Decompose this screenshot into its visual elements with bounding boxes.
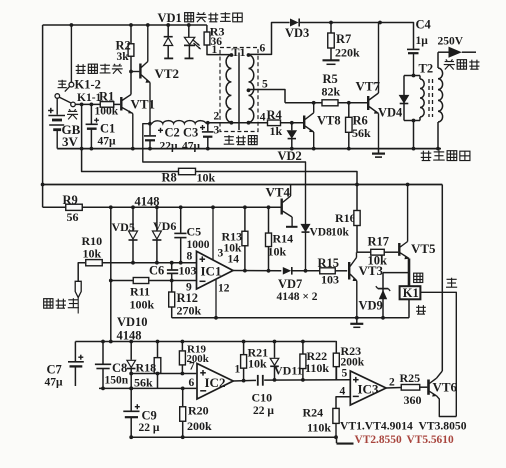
label IC2	[205, 375, 226, 390]
capacitor C4	[407, 49, 420, 75]
svg-text:270k: 270k	[177, 304, 202, 318]
label VT2	[155, 66, 180, 81]
capacitor C8	[95, 342, 111, 389]
label T2	[419, 62, 434, 76]
wire link winding C2 to C3	[152, 121, 206, 124]
diode VD8	[302, 225, 310, 273]
wire VT3 collector to VT5 base	[357, 251, 398, 253]
diode VD11	[270, 342, 279, 380]
svg-text:56: 56	[67, 210, 79, 224]
diode VD7	[283, 267, 292, 275]
label C7 plus	[78, 355, 83, 360]
svg-text:6: 6	[189, 377, 195, 389]
label R7	[336, 32, 351, 46]
svg-text:VT7: VT7	[356, 79, 381, 94]
label VD5	[112, 220, 135, 234]
svg-text:R7: R7	[336, 32, 351, 46]
svg-text:C9: C9	[142, 409, 157, 423]
label 360	[404, 393, 422, 407]
label pin 6	[260, 43, 266, 55]
diode VD10 and capacitor C9 branch	[123, 342, 139, 440]
svg-text:VT2.8550: VT2.8550	[355, 434, 402, 446]
wire T1 pin6 to VD3 line	[249, 23, 290, 55]
wire C2 node to VD8 branch	[143, 124, 306, 271]
svg-text:56k: 56k	[134, 376, 153, 390]
resistor R21	[241, 342, 247, 381]
svg-text:82k: 82k	[322, 85, 341, 99]
label 56k	[352, 126, 371, 140]
svg-text:R4: R4	[267, 108, 283, 122]
svg-text:VD6: VD6	[153, 219, 176, 233]
svg-text:100k: 100k	[95, 106, 119, 118]
label 110k R22	[305, 361, 329, 375]
label R20	[188, 404, 209, 418]
resistor R5	[322, 100, 338, 106]
svg-text:C3: C3	[183, 126, 198, 140]
label R4	[267, 108, 283, 122]
resistor R1	[100, 102, 114, 108]
label pin 12	[216, 280, 230, 318]
svg-text:22 μ: 22 μ	[139, 422, 160, 434]
label 高压线圈 (HV coil)	[421, 150, 470, 160]
label C8	[112, 361, 127, 375]
label 82k	[322, 85, 341, 99]
wire pin5 to R5 line	[249, 90, 286, 103]
label R1	[99, 90, 114, 104]
svg-text:4: 4	[260, 112, 266, 124]
svg-text:250V: 250V	[438, 36, 464, 48]
svg-text:R25: R25	[400, 371, 421, 385]
svg-text:C5: C5	[187, 225, 202, 239]
svg-text:VT8: VT8	[317, 114, 341, 128]
wire battery minus rail	[57, 147, 441, 151]
label R5	[323, 72, 338, 86]
label K1-2	[75, 78, 101, 92]
wire relay feed down right edge	[441, 185, 443, 372]
label VT7	[356, 79, 381, 94]
label R13	[222, 230, 243, 244]
wire R5 node line	[285, 101, 367, 105]
label C2 C3 values	[160, 125, 206, 153]
resistor R22	[300, 342, 306, 380]
svg-text:VD3: VD3	[285, 26, 309, 40]
label 10k R14	[268, 245, 287, 259]
svg-text:R8: R8	[162, 171, 177, 185]
wire IC2 inverting input	[99, 387, 196, 391]
label 1k	[270, 124, 283, 138]
transistor VT5	[399, 185, 409, 287]
transformer T1 secondary winding	[247, 53, 254, 125]
svg-text:IC2: IC2	[205, 375, 226, 390]
resistor R4	[268, 120, 281, 126]
label 150n	[105, 375, 129, 387]
resistor R16	[354, 185, 360, 253]
svg-text:R17: R17	[368, 235, 390, 249]
label 水控开关 (water switch)	[76, 64, 123, 74]
label pin 3	[213, 207, 224, 260]
svg-text:R20: R20	[188, 404, 209, 418]
resistor R3	[204, 25, 231, 55]
diode VD3	[290, 19, 299, 27]
svg-text:IC1: IC1	[201, 264, 222, 279]
svg-text:VD7: VD7	[278, 277, 302, 291]
svg-text:VT5.5610: VT5.5610	[407, 434, 454, 446]
svg-text:VD2: VD2	[278, 149, 302, 163]
transformer T1 primary winding	[226, 53, 233, 125]
svg-text:150n: 150n	[105, 375, 129, 387]
label VT3	[359, 263, 384, 278]
wire oscillator top rail	[75, 340, 335, 344]
wire IC3 inverting to R24	[336, 397, 350, 408]
zener VD9	[376, 273, 409, 318]
label pin 2	[214, 111, 220, 123]
label 开 (on)	[58, 80, 67, 88]
label 10k R17	[368, 254, 388, 268]
label VT8	[317, 114, 341, 128]
wire long middle rail	[41, 183, 443, 187]
label pin 4	[340, 386, 346, 398]
svg-text:R1: R1	[99, 90, 114, 104]
ground main rail	[372, 149, 385, 158]
label R17	[368, 235, 390, 249]
capacitor C3	[202, 123, 214, 149]
transformer T2 secondary 高压线圈	[438, 52, 443, 148]
wire IC3 output	[386, 387, 401, 390]
label VT5	[411, 241, 436, 256]
label VD8 10k	[310, 211, 356, 239]
capacitor C10	[258, 375, 350, 386]
svg-text:VT3.8050: VT3.8050	[419, 420, 467, 433]
svg-text:C4: C4	[416, 18, 432, 32]
wire IC1 output	[233, 269, 281, 273]
label 22u C10	[253, 405, 274, 417]
label IC1	[201, 264, 222, 279]
label IC3	[358, 382, 379, 397]
relay K1	[400, 286, 421, 318]
svg-text:K1: K1	[403, 286, 419, 300]
label R2	[116, 39, 131, 53]
resistor R23	[333, 342, 339, 380]
label 1000	[187, 239, 210, 251]
diode VD6	[152, 207, 161, 264]
ground middle rail	[350, 318, 363, 328]
resistor R13	[242, 207, 248, 272]
label R14	[273, 232, 294, 246]
label VD10 4148	[117, 315, 148, 343]
svg-text:3: 3	[214, 125, 220, 137]
svg-text:4148: 4148	[135, 195, 160, 209]
svg-text:C10: C10	[252, 391, 273, 405]
svg-text:3V: 3V	[62, 134, 79, 149]
svg-text:3k: 3k	[117, 51, 130, 63]
label VD6	[153, 219, 176, 233]
op-amp IC2	[197, 364, 233, 400]
label 100k	[95, 106, 119, 118]
svg-text:10k: 10k	[197, 171, 216, 185]
svg-text:1k: 1k	[270, 124, 283, 138]
label C5	[187, 225, 202, 239]
label C7	[47, 363, 62, 377]
svg-text:6: 6	[260, 43, 266, 55]
label C4	[416, 18, 432, 32]
transistor VT3	[349, 252, 357, 318]
svg-text:VD8: VD8	[310, 227, 333, 239]
svg-text:360: 360	[404, 393, 422, 407]
wire IC2 output	[233, 379, 256, 383]
label pin 5	[342, 368, 348, 380]
label VT6	[433, 380, 458, 395]
transformer T1 core	[238, 53, 240, 131]
label 4148 diodes	[135, 195, 160, 209]
resistor R12	[169, 281, 175, 318]
label 22u C9	[139, 422, 160, 434]
svg-text:5: 5	[262, 79, 268, 91]
svg-text:R24: R24	[303, 406, 324, 420]
label GB	[62, 122, 81, 137]
svg-text:C2: C2	[165, 126, 180, 140]
transistor VT7	[367, 23, 379, 149]
resistor R10	[86, 260, 103, 266]
diode VD2a indicator branch	[164, 25, 174, 58]
svg-text:VT1: VT1	[131, 97, 156, 112]
resistor R8	[179, 168, 196, 174]
svg-text:100k: 100k	[130, 298, 155, 312]
resistor R15	[293, 268, 348, 274]
svg-text:C6: C6	[149, 264, 164, 278]
svg-text:10k: 10k	[83, 246, 102, 260]
wire IC2 noninverting input	[131, 372, 196, 376]
transistor VT4	[282, 185, 298, 227]
svg-text:VT1.VT4.9014: VT1.VT4.9014	[340, 420, 413, 433]
svg-text:4: 4	[340, 386, 346, 398]
svg-text:5: 5	[342, 368, 348, 380]
label VD3	[285, 26, 309, 40]
svg-text:K1-1: K1-1	[77, 92, 102, 104]
label C1 plus	[94, 118, 99, 123]
label 200k R20	[187, 419, 212, 433]
diode VD2	[288, 123, 296, 149]
label 10k R8	[197, 171, 216, 185]
label 10k R10	[83, 246, 102, 260]
wire IC1 inverting input	[111, 279, 197, 283]
label 关 (off)	[67, 109, 78, 119]
label pin 5	[262, 79, 268, 91]
label pin 14	[228, 253, 240, 265]
label 36	[211, 36, 223, 48]
probe 检测针 (detection needle)	[75, 263, 85, 314]
svg-text:VD9: VD9	[359, 299, 383, 313]
svg-text:1: 1	[235, 364, 241, 376]
label 4148x2	[277, 291, 318, 303]
svg-text:47μ: 47μ	[45, 377, 64, 389]
svg-text:47μ: 47μ	[182, 141, 201, 153]
label 绿 (green)	[414, 273, 423, 282]
svg-text:R13: R13	[222, 230, 243, 244]
resistor R2	[128, 25, 134, 95]
label R24	[303, 406, 324, 420]
svg-text:VD5: VD5	[112, 220, 135, 234]
label transistor types	[340, 420, 467, 433]
label pin 3	[214, 125, 220, 137]
wire R25 to VT6 base	[420, 386, 428, 388]
transistor VT2	[129, 25, 150, 124]
svg-text:R9: R9	[63, 193, 78, 207]
label R21	[248, 346, 269, 360]
svg-text:1000: 1000	[187, 239, 210, 251]
resistor R24	[333, 408, 339, 439]
label 变压器 (transformer)	[224, 135, 257, 144]
svg-text:VD10: VD10	[117, 315, 148, 329]
svg-text:VD11: VD11	[274, 363, 303, 377]
svg-text:R16: R16	[335, 211, 356, 225]
svg-text:1: 1	[212, 44, 218, 56]
label R8	[162, 171, 177, 185]
label 10k R13	[224, 243, 243, 255]
label VT4	[266, 185, 291, 200]
label R11	[130, 285, 150, 299]
svg-text:IC3: IC3	[358, 382, 379, 397]
label 200k R23	[341, 357, 365, 369]
svg-text:7: 7	[189, 361, 195, 373]
capacitor C2	[144, 122, 156, 149]
label VD4	[378, 106, 403, 120]
label R18	[136, 361, 157, 375]
svg-text:103: 103	[321, 273, 339, 287]
svg-text:22μ: 22μ	[160, 141, 179, 153]
transistor VT1	[121, 95, 133, 149]
label 3V	[62, 134, 79, 149]
node top-rail junctions	[70, 23, 191, 27]
svg-text:110k: 110k	[307, 421, 331, 435]
label VT1	[131, 97, 156, 112]
wire top supply rail	[43, 25, 207, 207]
label 270k	[177, 304, 202, 318]
switch K1-2	[65, 25, 74, 92]
resistor R17	[371, 249, 385, 255]
wire R8 line	[82, 104, 357, 184]
label 1u	[416, 35, 429, 47]
svg-text:14: 14	[228, 253, 240, 265]
switch K1-1	[55, 94, 75, 107]
svg-text:VT6: VT6	[433, 380, 458, 395]
svg-text:10k: 10k	[248, 357, 267, 371]
label pin 4	[260, 112, 266, 124]
label 3k	[117, 51, 130, 63]
svg-text:10k: 10k	[368, 254, 388, 268]
svg-text:C7: C7	[47, 363, 62, 377]
svg-text:R11: R11	[130, 285, 150, 299]
svg-text:4148 × 2: 4148 × 2	[277, 291, 318, 303]
label C10	[252, 391, 273, 405]
label C9 plus	[135, 404, 140, 409]
label pin 9	[186, 282, 192, 294]
svg-text:10k: 10k	[268, 245, 287, 259]
svg-text:2: 2	[389, 377, 395, 389]
diode VD5	[129, 207, 138, 264]
ground below R7	[323, 60, 340, 64]
label VD7	[278, 277, 302, 291]
svg-text:2: 2	[214, 111, 220, 123]
label 56	[67, 210, 79, 224]
svg-text:103: 103	[179, 264, 197, 278]
label pin 8	[187, 251, 193, 263]
label 220k	[335, 46, 360, 60]
resistor R9	[66, 204, 83, 210]
svg-text:9: 9	[186, 282, 192, 294]
svg-text:VT4: VT4	[266, 185, 291, 200]
label pin 1	[212, 44, 218, 56]
label pin 7	[189, 361, 195, 373]
label 10k R21	[248, 357, 267, 371]
svg-text:VD1: VD1	[158, 11, 182, 25]
label 打火针 (spark needle)	[444, 59, 480, 69]
resistor R18	[154, 342, 161, 389]
svg-text:R14: R14	[273, 232, 294, 246]
svg-text:12: 12	[218, 283, 230, 295]
svg-text:T2: T2	[419, 62, 434, 76]
svg-text:56k: 56k	[352, 126, 371, 140]
label 110k R24	[307, 421, 331, 435]
svg-text:R15: R15	[318, 256, 340, 270]
transformer T1 shield box	[220, 48, 258, 132]
resistor R6	[346, 103, 353, 149]
transformer T2 primary and diode VD4	[400, 74, 425, 149]
LED VD1	[184, 25, 201, 58]
label 103 C6	[179, 264, 197, 278]
battery GB 3V	[48, 98, 65, 148]
label VD1 点火指示灯 (ignition indicator)	[158, 11, 243, 25]
wire R9 4148 rail	[43, 205, 282, 209]
ground bottom rail	[337, 437, 354, 443]
svg-text:3: 3	[218, 248, 224, 260]
op-amp IC3	[350, 371, 386, 405]
svg-text:1μ: 1μ	[416, 35, 429, 47]
resistor R20	[180, 388, 186, 439]
svg-text:8: 8	[187, 251, 193, 263]
label pin 1	[235, 364, 241, 376]
svg-text:22 μ: 22 μ	[253, 405, 274, 417]
label K1-1	[77, 92, 102, 104]
label R19	[187, 343, 206, 355]
label R25	[400, 371, 421, 385]
resistor R25	[401, 385, 420, 391]
label 检测针	[44, 298, 79, 308]
capacitor C5	[174, 207, 186, 264]
transistor VT6	[429, 371, 457, 417]
svg-text:47μ: 47μ	[98, 136, 117, 148]
label 黑 (black)	[416, 305, 426, 314]
label 100k R11	[130, 298, 155, 312]
capacitor C1	[86, 104, 98, 148]
label R3	[210, 25, 225, 39]
spark gap needle 打火针	[438, 47, 476, 58]
label C6	[149, 264, 164, 278]
label R12	[177, 291, 199, 305]
svg-text:10k: 10k	[331, 227, 350, 239]
wire IC1 noninverting input	[103, 262, 197, 264]
svg-text:C8: C8	[112, 361, 127, 375]
transistor VT8	[304, 103, 314, 149]
label 47u C7	[45, 377, 64, 389]
label 200k R19	[187, 353, 209, 365]
svg-text:VT5: VT5	[411, 241, 436, 256]
label VD9	[359, 299, 383, 313]
label R15	[318, 256, 340, 270]
op-amp IC1	[197, 251, 234, 289]
label R22	[307, 349, 328, 363]
svg-text:VD4: VD4	[378, 106, 403, 120]
label battery plus	[48, 108, 53, 113]
